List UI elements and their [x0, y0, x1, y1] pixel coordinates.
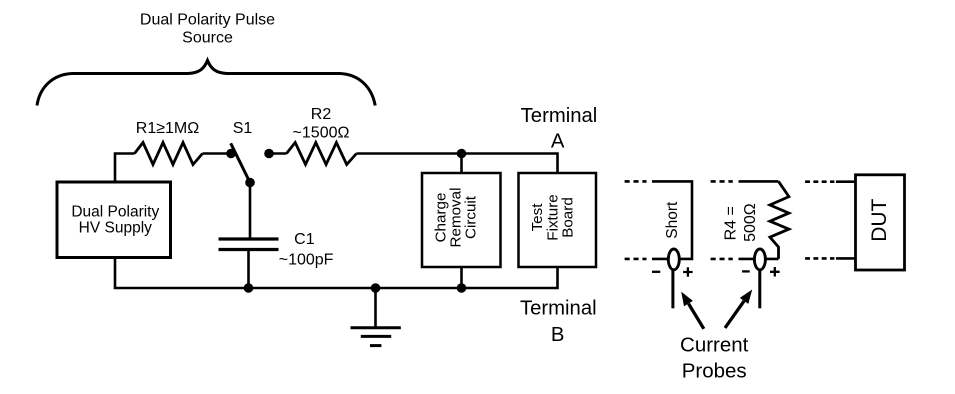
current probe 2 [742, 249, 780, 308]
label Terminal A [521, 105, 598, 153]
svg-text:A: A [551, 130, 565, 152]
node: R2 input [264, 149, 274, 159]
svg-text:Dual Polarity Pulse: Dual Polarity Pulse [140, 12, 275, 29]
label Terminal B [520, 298, 597, 346]
svg-text:Probes: Probes [682, 359, 747, 382]
label Current Probes [680, 334, 749, 383]
svg-text:Current: Current [680, 334, 749, 357]
svg-text:Terminal: Terminal [521, 105, 598, 127]
wire node to charge removal box [460, 154, 463, 174]
svg-text:S1: S1 [233, 120, 253, 137]
R4 section dashed wires [711, 180, 733, 183]
test fixture board box [519, 173, 597, 267]
svg-text:Source: Source [182, 30, 233, 47]
wire S1 to C1 [249, 183, 252, 240]
capacitor C1 [219, 231, 334, 288]
DUT solid wires [836, 180, 856, 183]
resistor R1 [135, 120, 203, 164]
arrow to probe 2 [725, 290, 752, 328]
arrow to probe 1 [681, 292, 704, 329]
DUT box [856, 175, 905, 270]
wire R2 to terminal A [357, 154, 558, 174]
wire from HV supply to R1 [115, 154, 135, 183]
charge removal circuit box [422, 173, 501, 267]
node: capacitor bottom [244, 283, 254, 293]
bottom wire [115, 257, 558, 288]
short bracket [652, 181, 692, 259]
node: charge removal bottom [457, 283, 467, 293]
resistor R2 [287, 106, 357, 165]
svg-text:Dual Polarity: Dual Polarity [71, 203, 159, 220]
label Dual Polarity Pulse Source [140, 12, 275, 47]
wire node to R2 [269, 152, 287, 155]
DUT dashed wires [805, 180, 834, 183]
node: top of charge removal circuit [457, 149, 467, 159]
svg-text:~1500Ω: ~1500Ω [293, 124, 350, 141]
short section dashed wires [625, 180, 647, 183]
ground [351, 288, 401, 346]
svg-text:Short: Short [664, 201, 681, 239]
svg-text:Circuit: Circuit [463, 195, 480, 239]
wire R1 to S1 [203, 152, 230, 155]
svg-text:B: B [551, 324, 565, 346]
svg-text:500Ω: 500Ω [742, 203, 759, 242]
svg-text:DUT: DUT [868, 198, 891, 241]
svg-text:R4 =: R4 = [722, 206, 739, 240]
brace [37, 61, 375, 106]
svg-text:R1≥1MΩ: R1≥1MΩ [136, 120, 199, 137]
HV supply box [57, 182, 171, 258]
svg-text:R2: R2 [311, 106, 332, 123]
node: ground junction [371, 283, 381, 293]
resistor R4 [722, 181, 789, 259]
R4 section solid wires [739, 180, 779, 183]
svg-text:Terminal: Terminal [520, 298, 597, 320]
svg-text:HV Supply: HV Supply [79, 219, 152, 236]
wire charge removal box to bottom wire [460, 267, 463, 288]
current probe 1 [652, 249, 693, 308]
svg-text:Board: Board [560, 197, 577, 238]
switch S1 [226, 120, 255, 187]
svg-text:C1: C1 [294, 231, 315, 248]
svg-text:~100pF: ~100pF [279, 251, 334, 268]
